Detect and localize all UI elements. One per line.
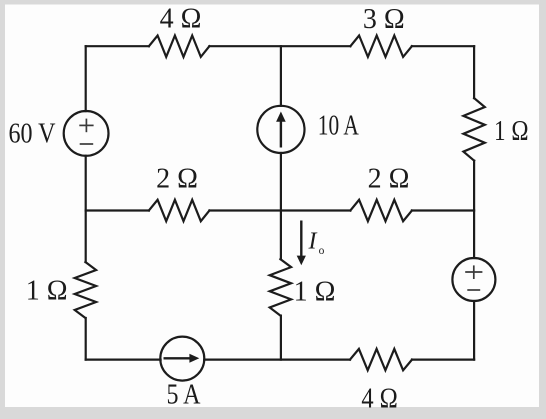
wire top-middle (4-ohm to 3-ohm across middle node) (209, 45, 350, 47)
wire middle row left (left wire to left 2-ohm) (86, 209, 149, 211)
resistor 2ohm right (350, 200, 412, 221)
wire left vertical lower (left 1-ohm to bottom-left corner) (85, 318, 87, 360)
resistor 3ohm top (350, 36, 412, 57)
wire left vertical upper (corner to 60V source) (85, 46, 87, 111)
resistor 1ohm left (75, 262, 96, 318)
resistor 4ohm bottom (350, 349, 412, 370)
wire top-left (top-left corner to 4-ohm) (86, 45, 149, 47)
wire middle row center (2-ohm to 2-ohm across middle vertical) (209, 209, 350, 211)
svg-text:o: o (319, 245, 325, 257)
wire bottom right (4-ohm to bottom-right corner) (412, 359, 474, 361)
current source 10A circle (257, 106, 304, 153)
svg-text:3 Ω: 3 Ω (363, 4, 405, 35)
voltage source right circle (452, 258, 495, 301)
voltage source 60V circle (64, 111, 109, 156)
wire right vertical middle (right 1-ohm to +- source) (473, 161, 475, 258)
svg-text:4 Ω: 4 Ω (361, 384, 398, 415)
svg-text:1 Ω: 1 Ω (26, 276, 68, 307)
resistor 4ohm top (149, 36, 210, 57)
svg-text:1 Ω: 1 Ω (294, 277, 336, 308)
right voltage source polarity marks (465, 265, 482, 290)
svg-text:1 Ω: 1 Ω (494, 116, 529, 147)
svg-text:2 Ω: 2 Ω (156, 164, 198, 195)
svg-text:I: I (308, 229, 318, 255)
wire top-right (3-ohm to top-right corner) (412, 45, 474, 47)
wire middle vertical lower (middle 1-ohm to bottom wire) (280, 316, 282, 360)
wire right vertical lower (+- source to bottom-right corner) (473, 301, 475, 360)
Io current arrow (297, 221, 306, 266)
5A source arrow (164, 354, 200, 363)
svg-text:5 A: 5 A (167, 379, 202, 410)
wire left vertical middle (60V source to left 1-ohm) (85, 156, 87, 262)
resistor 1ohm middle (270, 259, 291, 316)
svg-text:2 Ω: 2 Ω (368, 164, 410, 195)
resistor 1ohm right (463, 98, 484, 161)
current source 5A circle (160, 337, 204, 381)
wire bottom left (bottom-left corner to 5A source) (86, 359, 161, 361)
wire bottom middle (5A source to bottom 4-ohm) (204, 359, 350, 361)
60V source polarity marks (79, 119, 93, 144)
wire middle vertical upper (top wire to 10A source) (280, 46, 282, 106)
resistor 2ohm left (149, 200, 210, 221)
svg-text:60 V: 60 V (9, 118, 56, 149)
svg-text:10 A: 10 A (318, 110, 360, 141)
wire middle vertical (10A source through middle node to middle 1-ohm) (280, 153, 282, 259)
svg-text:4 Ω: 4 Ω (160, 4, 202, 35)
wire right vertical upper (top-right corner to right 1-ohm) (473, 46, 475, 98)
10A source arrow (276, 112, 286, 148)
wire middle row right (right 2-ohm to right wire) (412, 209, 474, 211)
